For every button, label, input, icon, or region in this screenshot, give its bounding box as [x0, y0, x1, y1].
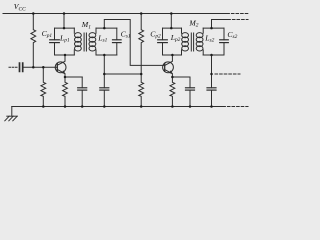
capacitor Cp1 [50, 28, 60, 55]
wire ground rail dashed continuation [223, 106, 248, 108]
wire base Q1 [24, 66, 58, 68]
node bias1 CB1 [103, 73, 106, 76]
capacitor CB1 bypass [100, 74, 109, 107]
inductor Lp1 primary [74, 28, 81, 55]
node ground CB2 [210, 105, 213, 108]
wire tank2 bottom [163, 54, 182, 56]
inductor Ls1 secondary [89, 28, 96, 55]
resistor RE2 emitter [170, 77, 175, 107]
wire VCC rail [3, 13, 226, 15]
node bias1 R3R4 [140, 73, 143, 76]
node emitter2 [171, 76, 174, 79]
node ground CB1 [103, 105, 106, 108]
node bias2 CB2 [210, 73, 213, 76]
inductor Lp2 primary [182, 28, 189, 55]
node VCC-tank1 [63, 12, 66, 15]
node ground RE2 [171, 105, 174, 108]
node secondary1 top [103, 27, 106, 30]
transistor Q2 [163, 55, 174, 77]
wire secondary2 bottom to bias node [211, 55, 213, 74]
resistor RE1 emitter [63, 77, 68, 107]
node tank2 top feed [170, 27, 173, 30]
wire tank1 top [55, 27, 75, 29]
capacitor input coupling [20, 63, 23, 71]
wire jumper secondary1 to Q2 base [104, 20, 164, 66]
resistor R2 bias [41, 67, 46, 106]
node ground R4 [140, 105, 143, 108]
wire tank2 secondary top [203, 27, 224, 29]
node secondary2 bottom [210, 54, 213, 57]
capacitor Cs2 [220, 28, 229, 55]
node VCC-tank2 [170, 12, 173, 15]
resistor R1 bias [31, 14, 36, 68]
node ground RE1 [64, 105, 67, 108]
capacitor CE1 bypass [78, 77, 87, 107]
wire emitter2 to CE2 [172, 76, 190, 78]
capacitor CE2 bypass [186, 77, 195, 107]
wire VCC to tank1 [63, 14, 65, 29]
capacitor CB2 bypass [207, 74, 216, 107]
node ground CE2 [189, 105, 192, 108]
node tank2 bottom collector [171, 54, 174, 57]
capacitor Cp2 [158, 28, 168, 55]
wire emitter1 to CE1 [65, 76, 82, 78]
wire tank1 secondary top [96, 27, 117, 29]
ground [5, 107, 17, 121]
node VCC-R3 [140, 12, 143, 15]
node ground CE1 [81, 105, 84, 108]
wire jumper secondary2 output [212, 20, 228, 29]
wire secondary1 bottom to bias node [104, 55, 141, 74]
node base1-R1 [32, 66, 35, 69]
node secondary2 top [210, 27, 213, 30]
node tank1 top feed [63, 27, 66, 30]
node emitter1 [64, 76, 67, 79]
node VCC-R1 [32, 12, 35, 15]
node secondary1 bottom [103, 54, 106, 57]
transistor Q1 [55, 55, 66, 77]
transformer M1 core [84, 33, 86, 51]
resistor R4 bias stage2 [139, 74, 144, 107]
wire input dashed lead [9, 66, 17, 68]
wire VCC rail dashed continuation [227, 13, 249, 15]
wire tank2 top [163, 27, 182, 29]
wire VCC to tank2 [170, 14, 172, 29]
wire jumper secondary2 dashed continuation [228, 19, 248, 21]
node base1-R2 [42, 66, 45, 69]
inductor Ls2 secondary [196, 28, 203, 55]
resistor R3 bias stage2 [139, 14, 144, 75]
wire bias node2 dashed continuation [215, 73, 240, 75]
node tank1 bottom collector [64, 54, 67, 57]
capacitor Cs1 [113, 28, 122, 55]
node ground R2 [42, 105, 45, 108]
transformer M2 core [191, 33, 193, 51]
wire tank1 bottom [55, 54, 75, 56]
wire tank1 secondary bottom [96, 54, 117, 56]
wire ground rail [12, 106, 222, 108]
wire tank2 secondary bottom [203, 54, 224, 56]
